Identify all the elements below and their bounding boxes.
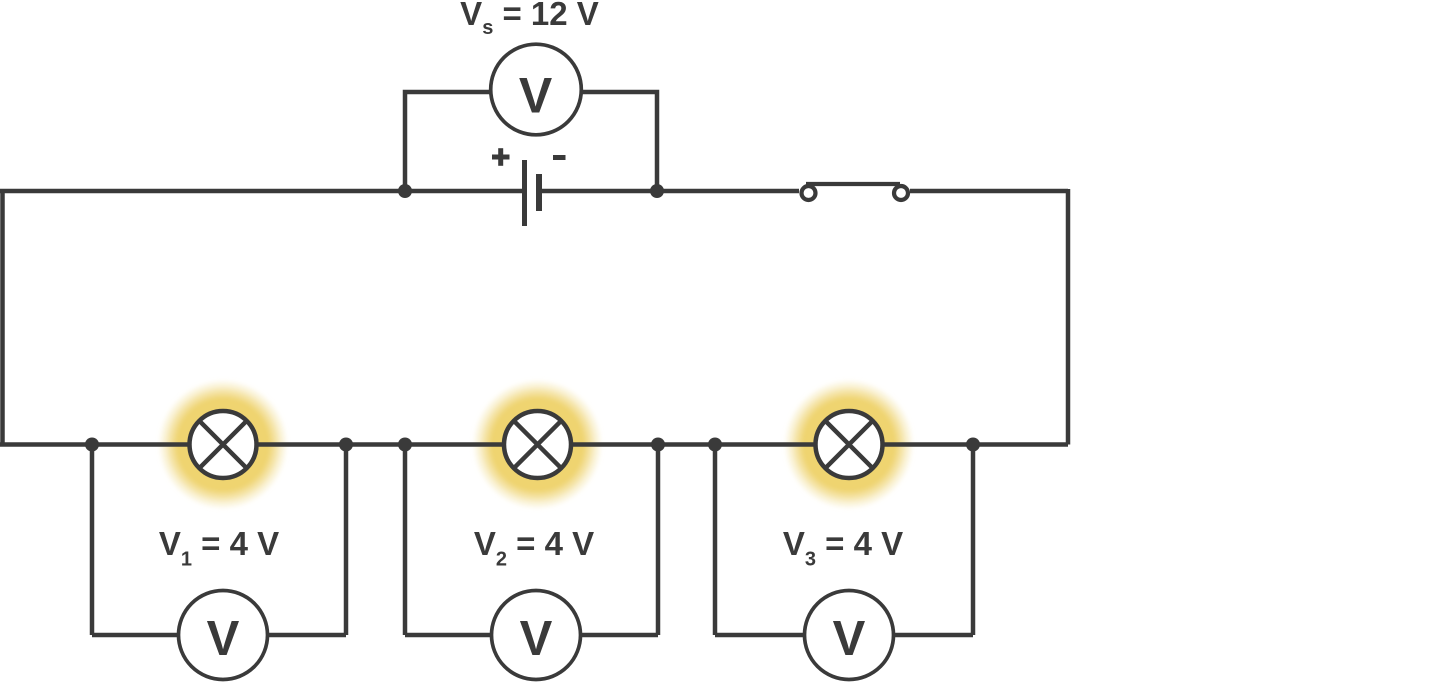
- svg-text:V: V: [519, 68, 553, 124]
- svg-text:V: V: [833, 612, 866, 666]
- svg-text:V3 = 4 V: V3 = 4 V: [783, 525, 903, 571]
- svg-text:V: V: [520, 612, 553, 666]
- svg-text:Vs = 12 V: Vs = 12 V: [460, 0, 599, 39]
- svg-text:V2 = 4 V: V2 = 4 V: [474, 525, 594, 571]
- svg-text:V1 = 4 V: V1 = 4 V: [159, 525, 279, 571]
- svg-text:V: V: [207, 612, 240, 666]
